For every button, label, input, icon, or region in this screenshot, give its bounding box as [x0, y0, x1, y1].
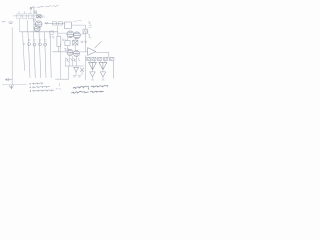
wire left drop long [59, 44, 61, 79]
resistor R7 hatched [104, 57, 108, 60]
capacitor C7 box [65, 41, 70, 46]
lamp L2 [28, 40, 31, 46]
tube V5 [67, 49, 73, 55]
resistor R6 hatched [98, 57, 102, 60]
wire sense line 4 [39, 32, 41, 78]
ground left pair [73, 76, 81, 77]
wire diode drop [76, 72, 82, 76]
wire left rail long [11, 28, 13, 85]
wire bias drop [84, 25, 86, 52]
resistor R2 tall [57, 36, 61, 52]
caption line 2 ticks [74, 91, 101, 94]
caption line 2 Old Flip Flop [72, 91, 104, 93]
wire plate drop [57, 25, 59, 36]
wire cathode drop 2 [68, 55, 70, 66]
tube V2 [34, 26, 40, 32]
note list ticks [33, 83, 51, 92]
resistor Rb [23, 11, 27, 19]
label D1 value [42, 16, 45, 18]
diode D2 box [73, 40, 78, 45]
tube V1 [34, 21, 42, 28]
wire return L [56, 66, 69, 79]
diode D5 triangle [90, 72, 96, 77]
node test point [56, 83, 61, 89]
wire stub T2 a [101, 60, 105, 62]
tube V4 [74, 32, 81, 39]
label grid note [62, 39, 66, 41]
wire sense line 5 [45, 32, 47, 78]
wire stub T1 a [91, 60, 95, 62]
wire screen row [58, 32, 67, 34]
wire baseline bottom left [2, 84, 26, 86]
wire flipflop input [53, 51, 68, 53]
wire plate feed [72, 24, 86, 26]
label tube V1 value [34, 11, 37, 14]
wire box Ra drop [19, 19, 21, 32]
tube T1 triangle [89, 62, 97, 69]
label R3 value [88, 34, 91, 38]
diode D3 triangle [74, 67, 79, 72]
lamp L4 [38, 40, 41, 46]
label V5 grid scribble [65, 48, 69, 51]
wire cathode drop 1 [65, 57, 67, 66]
wire tube V4 cathode [74, 39, 76, 50]
op-amp A1 triangle [88, 48, 96, 56]
caption line 1 ticks [75, 86, 107, 89]
resistor R4 hatched [87, 57, 91, 60]
resistor Rc [29, 11, 33, 19]
wire D6 drop [102, 77, 104, 80]
resistor R5 hatched [92, 57, 96, 60]
note list line 1 [30, 83, 44, 85]
wire cathode drop 3 [72, 56, 74, 66]
tube V6 [73, 50, 79, 56]
lamp L5 [44, 40, 47, 46]
diode D1 box [37, 15, 41, 18]
label C6 [50, 36, 55, 38]
wire cathode drop 4 [76, 56, 78, 66]
diode D6 triangle [100, 72, 106, 77]
ground symbol bottom [9, 85, 13, 89]
label cluster scribble [66, 58, 79, 61]
resistor Rg zigzag [45, 22, 48, 24]
label plate note [88, 22, 91, 28]
relay K1 box [65, 22, 72, 29]
lamp L3 [33, 40, 36, 46]
resistor R8 hatched [109, 57, 114, 60]
wire feedback diagonal [95, 42, 102, 49]
wire left branch [26, 21, 28, 32]
wire amp output [96, 52, 114, 78]
wire D5 drop [92, 77, 94, 80]
label K1 [73, 20, 81, 21]
wire tube V4 plate stub [80, 33, 84, 35]
wire coupling row [45, 22, 65, 24]
wire bus top [20, 31, 58, 33]
wire sense line 3 [34, 32, 36, 78]
tube T2 triangle [99, 62, 107, 69]
node input terminal [2, 21, 5, 24]
wire input row [14, 15, 37, 17]
note list line 3 [30, 90, 54, 92]
annotation top note [30, 6, 59, 10]
note list line 2 [30, 86, 50, 88]
ground marks pair [81, 41, 87, 42]
wire right block left rail [85, 56, 87, 81]
wire bus lower [65, 65, 83, 67]
resistor R3 hatched [83, 29, 88, 33]
resistor Ra [17, 11, 21, 19]
resistor grid marks [33, 19, 36, 22]
node input label [9, 22, 13, 24]
wire sense line 6 [50, 32, 51, 78]
ground feet D5 D6 [91, 79, 104, 81]
capacitor Cc2 [59, 22, 63, 25]
lamp L1 mark [23, 43, 25, 45]
tube V3 [67, 31, 74, 38]
wire main stem [33, 8, 35, 32]
wire sense line 2 [28, 32, 30, 78]
ground arrow left [5, 78, 12, 81]
caption line 1 Modulator Grid [73, 86, 108, 90]
wire T2 drop [102, 70, 104, 72]
diode D4 cross [80, 68, 84, 72]
wire T1 drop [92, 70, 94, 72]
wire amp input [80, 51, 88, 53]
capacitor Cc1 [53, 22, 57, 25]
capacitor C6 box [50, 31, 54, 34]
wire tube V3 cathode [67, 37, 69, 49]
wire sense line 1 [23, 32, 25, 71]
